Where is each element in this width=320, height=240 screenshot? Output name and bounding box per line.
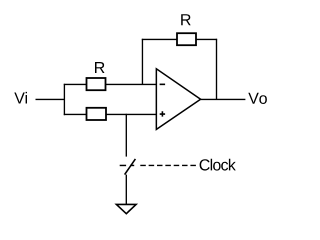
wire feedback top left xyxy=(142,38,177,40)
op-amp U1 xyxy=(156,69,200,130)
wire switch to ground xyxy=(125,175,127,205)
wire output xyxy=(201,98,246,100)
label Clock xyxy=(200,159,236,171)
op-amp plus sign xyxy=(160,111,165,116)
wire input branch vertical xyxy=(63,84,65,115)
wire feedback top right xyxy=(196,38,217,40)
label R (input resistor) xyxy=(95,62,105,73)
switch blade xyxy=(125,159,136,175)
label Vi xyxy=(14,92,27,104)
wire top branch to resistor R1 xyxy=(64,83,87,85)
clock dashed control line (dash at blade) xyxy=(130,164,134,166)
resistor R (feedback) xyxy=(177,33,196,45)
wire switch drop from non-inverting node xyxy=(125,114,127,157)
label Vo xyxy=(248,93,267,104)
wire Vi input xyxy=(36,98,65,100)
resistor (non-inverting input) xyxy=(87,108,107,120)
op-amp minus sign xyxy=(160,83,166,85)
clock dashed control line xyxy=(140,164,196,166)
clock dashed control line (left dash) xyxy=(120,164,126,166)
wire bottom branch to resistor xyxy=(64,113,87,115)
resistor R (input, inverting) xyxy=(87,78,106,90)
label R (feedback resistor) xyxy=(181,14,191,25)
ground xyxy=(116,204,136,213)
wire feedback left vertical xyxy=(141,39,143,85)
wire resistor to op-amp non-inverting input xyxy=(106,113,156,115)
wire resistor to op-amp inverting input xyxy=(106,83,157,85)
wire feedback right vertical xyxy=(216,39,218,100)
